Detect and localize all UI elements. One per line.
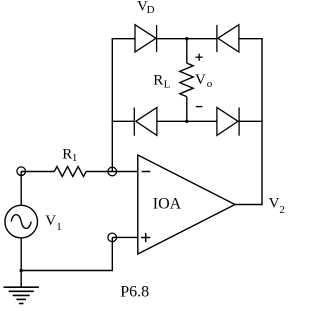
diode D (top-left, pointing right) [135, 25, 157, 52]
wire: inverting input horizontal run [21, 171, 54, 173]
op-amp U1 (IOA) [138, 155, 235, 254]
node: left input terminal (open circle) [17, 167, 26, 176]
node: non-inverting input terminal (open circle) [108, 233, 117, 242]
wire: non-inverting node down [111, 237, 113, 270]
wire: top rail left segment [112, 38, 136, 40]
wire: R1 to op-amp inverting input [86, 171, 138, 173]
svg-text:R: R [62, 146, 72, 162]
svg-text:V: V [45, 213, 56, 229]
svg-text:2: 2 [279, 204, 285, 216]
svg-text:D: D [147, 4, 155, 16]
ground [4, 287, 39, 303]
wire: top rail middle segment [157, 38, 218, 40]
resistor RL (vertical zigzag) [180, 63, 193, 97]
diode (top-right, pointing left) [217, 25, 239, 52]
label - (Vo minus) [196, 106, 203, 108]
node: inverting input terminal (open circle) [108, 167, 117, 176]
wire: non-inverting input horizontal run [112, 236, 138, 238]
svg-text:L: L [164, 79, 171, 91]
wire: right output column [261, 38, 263, 205]
wire: center column bottom (RL to bottom rail) [186, 97, 188, 122]
diode (bottom-right, pointing right) [217, 108, 239, 136]
op-amp non-inverting mark + [141, 233, 150, 242]
op-amp inverting mark - [142, 171, 151, 173]
wire: bottom rail right segment [239, 120, 263, 122]
wire: left terminal down to source [20, 171, 22, 205]
junction: top rail to RL [185, 37, 188, 40]
junction: bottom rail to RL [185, 120, 188, 123]
wire: op-amp output [235, 204, 263, 206]
wire: left feedback column [111, 39, 113, 172]
svg-text:1: 1 [72, 152, 78, 164]
svg-text:o: o [207, 78, 213, 90]
junction: ground run to source branch [20, 269, 23, 272]
wire: bottom rail left segment [112, 120, 135, 122]
wire: bottom ground run [21, 270, 113, 272]
resistor R1 (horizontal zigzag) [54, 167, 86, 177]
svg-text:R: R [153, 72, 163, 88]
svg-text:P6.8: P6.8 [120, 283, 149, 300]
svg-text:IOA: IOA [153, 196, 182, 213]
wire: top rail right segment [239, 38, 263, 40]
diode (bottom-left, pointing left) [134, 108, 157, 136]
label + (Vo plus) [196, 54, 203, 61]
wire: center column top (to RL) [186, 39, 188, 63]
wire: bottom rail middle segment [157, 120, 217, 122]
wire: source down to ground [20, 238, 22, 287]
svg-text:1: 1 [56, 221, 62, 233]
svg-text:V: V [195, 72, 206, 88]
source V1 (sine symbol) [5, 205, 38, 238]
svg-text:V: V [269, 196, 280, 212]
